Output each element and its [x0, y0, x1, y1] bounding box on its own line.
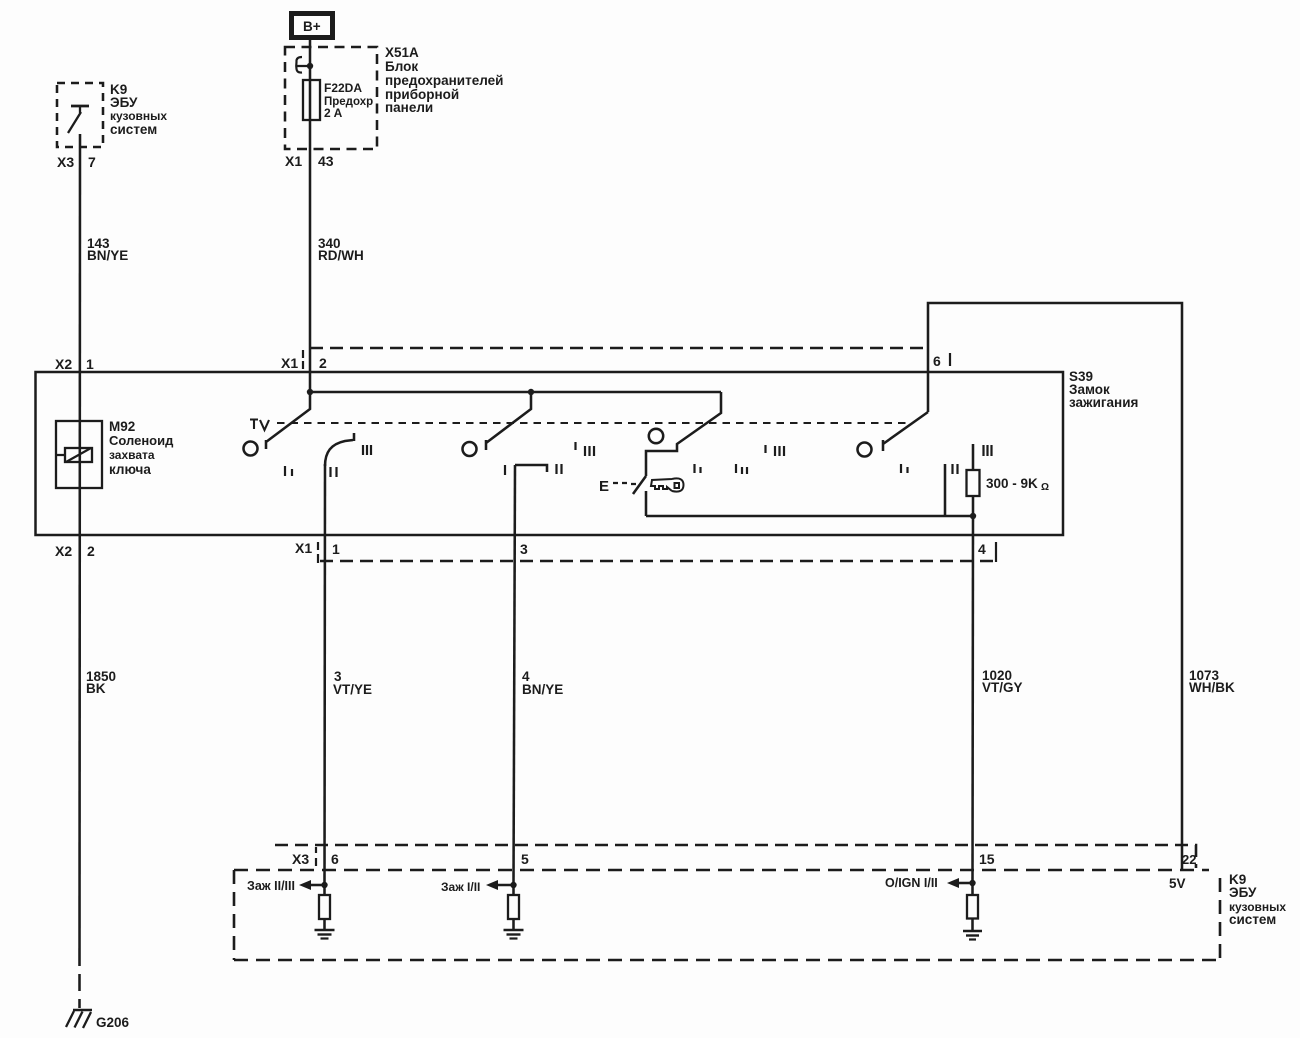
- svg-text:панели: панели: [385, 100, 433, 115]
- switch pole 3 with key actuator: [633, 392, 721, 516]
- position labels II / III near arc: [331, 445, 372, 477]
- position ticks near stub: [901, 445, 992, 474]
- ground pin6: [315, 929, 335, 932]
- junction bus left: [307, 389, 313, 395]
- svg-text:X2: X2: [55, 356, 72, 372]
- ignition switch S39 enclosure: [36, 372, 1064, 535]
- svg-text:43: 43: [318, 153, 334, 169]
- K9 contact symbol: [71, 105, 89, 108]
- wire 1073 WH/BK loop from pin 6 over the top to pin 22: [928, 303, 1182, 870]
- lower contact line to resistor: [646, 515, 973, 518]
- ignition key symbol: [651, 478, 684, 491]
- svg-text:X1: X1: [295, 540, 312, 556]
- svg-text:Заж II/III: Заж II/III: [247, 879, 295, 893]
- ground pin5: [504, 929, 524, 932]
- wire pin 4 down (1020 VT/GY): [971, 516, 974, 883]
- svg-text:WH/BK: WH/BK: [1189, 680, 1235, 695]
- svg-text:BK: BK: [86, 681, 106, 696]
- wire 340 RD/WH vertical from B+ into ignition switch: [309, 40, 312, 392]
- svg-text:2: 2: [319, 355, 327, 371]
- position II stub contact: [944, 464, 947, 515]
- svg-text:VT/YE: VT/YE: [333, 682, 372, 697]
- solenoid M92 key lock: [56, 421, 102, 488]
- ground G206: [73, 1009, 92, 1012]
- junction lower line / resistor: [970, 513, 976, 519]
- wire pin 1 down (3 VT/YE): [323, 464, 326, 885]
- svg-text:G206: G206: [96, 1015, 130, 1030]
- K9 body control module dashed enclosure bottom: [234, 870, 1220, 960]
- svg-text:зажигания: зажигания: [1069, 395, 1138, 410]
- svg-text:5: 5: [521, 851, 529, 867]
- svg-text:Ω: Ω: [1041, 482, 1049, 493]
- junction bus mid: [528, 389, 534, 395]
- switch pole 4 contact circle: [858, 443, 872, 457]
- switch pole 4 moving arm: [883, 412, 928, 451]
- position ticks I pole1: [285, 466, 292, 476]
- svg-text:B+: B+: [303, 19, 321, 34]
- pull-down resistor pin15: [971, 883, 974, 931]
- switch pole 2 contact circle: [463, 442, 477, 456]
- pull-down resistor pin6: [323, 885, 326, 930]
- resistor 300-9K in switch: [972, 444, 975, 515]
- position ticks I / II near pin3 contact: [505, 442, 594, 475]
- svg-text:15: 15: [979, 851, 995, 867]
- svg-text:1: 1: [86, 356, 94, 372]
- wire 143 BN/YE / 1850 BK left vertical: [78, 134, 81, 966]
- svg-text:систем: систем: [1229, 912, 1276, 927]
- junction at fuse input: [307, 63, 313, 69]
- connector X1 bottom dashed row: [320, 560, 996, 563]
- switch pole 3 contact circle: [649, 429, 663, 443]
- svg-text:5V: 5V: [1169, 876, 1186, 891]
- mechanical coupling dashed line: [277, 422, 909, 424]
- wiper contact of pin 1 (arc): [325, 433, 354, 466]
- fuse F22DA: [303, 80, 320, 120]
- svg-text:X1: X1: [285, 153, 302, 169]
- svg-text:захвата: захвата: [109, 448, 155, 462]
- ground pin15: [963, 930, 982, 933]
- wire pin 3 down (4 BN/YE): [514, 465, 516, 885]
- svg-text:F22DA: F22DA: [324, 81, 362, 95]
- svg-text:систем: систем: [110, 122, 157, 137]
- svg-text:X51A: X51A: [385, 45, 419, 60]
- svg-text:6: 6: [933, 353, 941, 369]
- svg-text:BN/YE: BN/YE: [87, 248, 128, 263]
- svg-text:Соленоид: Соленоид: [109, 433, 174, 448]
- svg-text:X3: X3: [57, 154, 74, 170]
- connector X3 bottom dashed row: [275, 845, 1196, 868]
- internal supply bus of S39: [310, 391, 721, 394]
- svg-text:кузовных: кузовных: [110, 109, 167, 123]
- connector terminal clip in fuse box: [296, 57, 308, 73]
- switch pole 1 contact circle: [244, 442, 258, 456]
- position label IV: [250, 420, 269, 431]
- svg-text:300 - 9K: 300 - 9K: [986, 476, 1038, 491]
- svg-text:X2: X2: [55, 543, 72, 559]
- switch pole 1 moving arm: [266, 392, 310, 449]
- svg-text:ЭБУ: ЭБУ: [110, 95, 138, 110]
- svg-text:Заж I/II: Заж I/II: [441, 880, 480, 894]
- svg-text:O/IGN I/II: O/IGN I/II: [885, 876, 938, 890]
- stationary contact pin 3: [515, 465, 547, 472]
- fuse box X51A dashed enclosure: [285, 47, 377, 149]
- svg-text:X3: X3: [292, 851, 309, 867]
- svg-text:ЭБУ: ЭБУ: [1229, 885, 1257, 900]
- svg-text:7: 7: [88, 154, 96, 170]
- position ticks I / II near key: [695, 445, 785, 474]
- svg-text:BN/YE: BN/YE: [522, 682, 563, 697]
- svg-text:3: 3: [520, 541, 528, 557]
- svg-text:E: E: [599, 478, 609, 495]
- svg-text:предохранителей: предохранителей: [385, 73, 503, 88]
- svg-text:RD/WH: RD/WH: [318, 248, 364, 263]
- svg-text:2 A: 2 A: [324, 106, 343, 120]
- pull-down resistor pin5: [512, 885, 515, 930]
- svg-text:6: 6: [331, 851, 339, 867]
- svg-text:X1: X1: [281, 355, 298, 371]
- connector X1 top dashed row: [310, 347, 928, 350]
- svg-text:Блок: Блок: [385, 59, 418, 74]
- svg-text:VT/GY: VT/GY: [982, 680, 1023, 695]
- relay K9 dashed box top-left: [57, 83, 103, 147]
- svg-text:M92: M92: [109, 419, 135, 434]
- power terminal B+: [292, 14, 333, 38]
- svg-text:1: 1: [332, 541, 340, 557]
- svg-text:2: 2: [87, 543, 95, 559]
- svg-text:ключа: ключа: [109, 462, 151, 477]
- switch pole 2 moving arm: [486, 392, 531, 450]
- svg-text:4: 4: [978, 541, 986, 557]
- svg-text:22: 22: [1182, 852, 1196, 867]
